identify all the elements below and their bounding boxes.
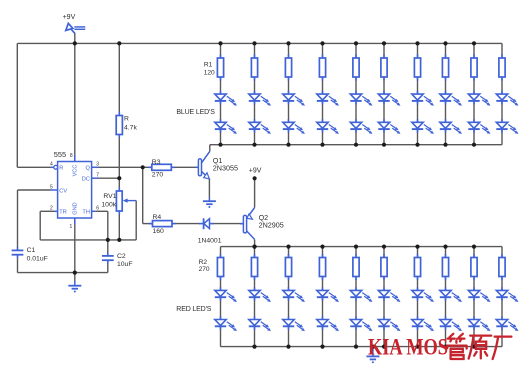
svg-text:GND: GND xyxy=(73,202,79,214)
svg-text:R: R xyxy=(124,115,129,122)
svg-text:2N3055: 2N3055 xyxy=(213,164,238,173)
svg-text:8: 8 xyxy=(70,153,73,159)
svg-text:100k: 100k xyxy=(101,202,116,209)
svg-text:5: 5 xyxy=(50,184,53,190)
svg-text:VCC: VCC xyxy=(73,165,79,177)
svg-text:RED LED'S: RED LED'S xyxy=(176,306,211,313)
svg-text:7: 7 xyxy=(96,173,99,179)
svg-text:C2: C2 xyxy=(117,253,126,260)
svg-text:6: 6 xyxy=(96,206,99,212)
svg-text:3: 3 xyxy=(96,162,99,168)
svg-text:BLUE LED'S: BLUE LED'S xyxy=(176,109,215,116)
svg-text:RV1: RV1 xyxy=(103,193,116,200)
svg-text:270: 270 xyxy=(199,266,210,273)
svg-text:R1: R1 xyxy=(204,61,213,68)
svg-text:+9V: +9V xyxy=(63,14,76,21)
svg-text:10uF: 10uF xyxy=(117,261,133,268)
svg-text:270: 270 xyxy=(152,172,164,179)
svg-text:R4: R4 xyxy=(153,214,162,221)
svg-text:120: 120 xyxy=(204,69,215,76)
svg-text:4: 4 xyxy=(50,162,53,168)
svg-text:R2: R2 xyxy=(199,259,208,266)
svg-text:2N2905: 2N2905 xyxy=(259,221,284,230)
svg-text:0.01uF: 0.01uF xyxy=(27,255,48,262)
svg-text:DC: DC xyxy=(82,177,90,183)
svg-text:R3: R3 xyxy=(152,159,161,166)
svg-text:KIA MOS: KIA MOS xyxy=(368,335,448,361)
svg-text:1N4001: 1N4001 xyxy=(198,238,222,245)
svg-text:+9V: +9V xyxy=(249,167,262,174)
svg-text:Q: Q xyxy=(86,166,91,172)
svg-text:R: R xyxy=(59,166,63,172)
svg-text:555: 555 xyxy=(54,150,66,159)
svg-text:160: 160 xyxy=(153,228,165,235)
svg-text:TH: TH xyxy=(82,210,89,216)
svg-text:C1: C1 xyxy=(27,247,36,254)
svg-text:TR: TR xyxy=(59,210,66,216)
svg-text:4.7k: 4.7k xyxy=(124,125,137,132)
svg-text:CV: CV xyxy=(59,188,67,194)
svg-text:2: 2 xyxy=(50,206,53,212)
svg-text:1: 1 xyxy=(70,224,73,230)
